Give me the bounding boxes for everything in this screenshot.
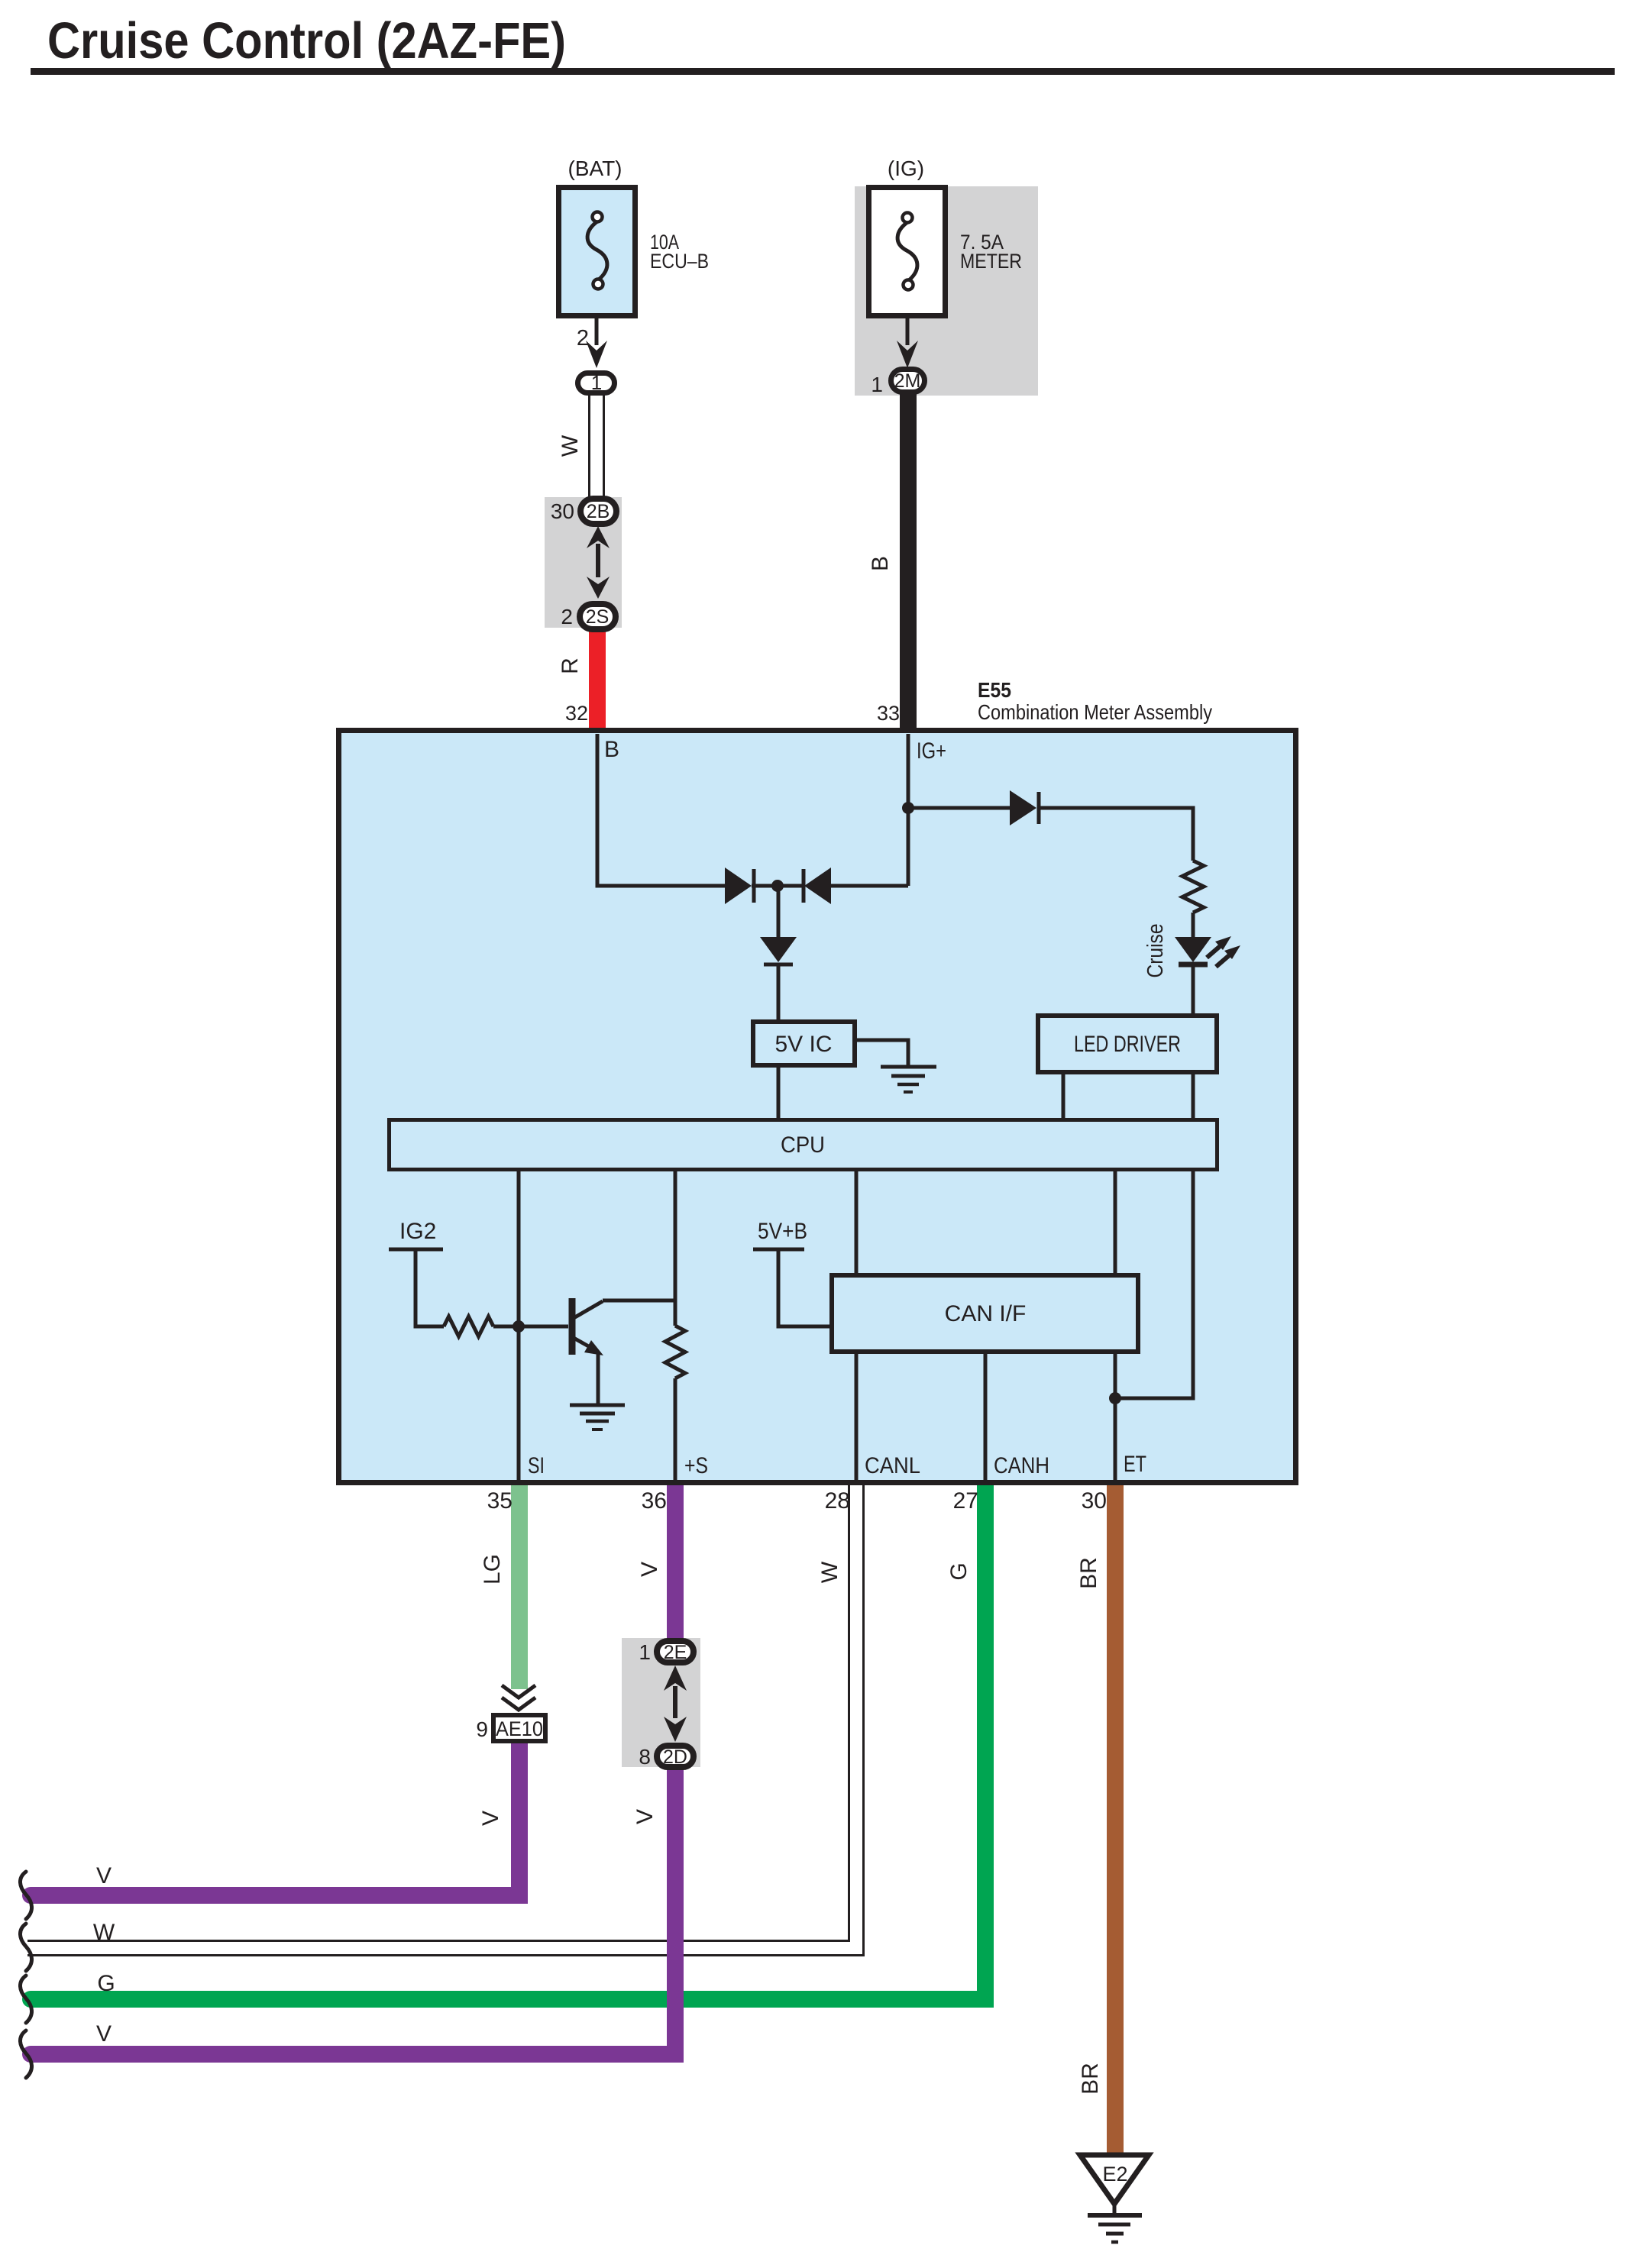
svg-text:28: 28 xyxy=(825,1488,850,1514)
svg-text:G: G xyxy=(97,1971,115,1996)
svg-text:9: 9 xyxy=(476,1717,488,1741)
LED Cruise xyxy=(1175,937,1211,962)
svg-text:(BAT): (BAT) xyxy=(568,157,622,180)
diode D1 xyxy=(725,867,752,904)
arrow into connector 2M xyxy=(897,341,918,368)
svg-text:5V IC: 5V IC xyxy=(774,1032,832,1057)
junction arrows between 2E and 2D xyxy=(664,1665,687,1691)
svg-text:+S: +S xyxy=(684,1453,708,1478)
wire CANH to pin 27 xyxy=(984,1352,988,1482)
wire 5V IC to ground xyxy=(855,1040,908,1067)
svg-text:AE10: AE10 xyxy=(496,1717,543,1740)
wire CANL to pin 28 xyxy=(855,1352,859,1482)
wire LED return to ET xyxy=(1115,1170,1193,1398)
svg-text:V: V xyxy=(637,1562,662,1577)
svg-text:SI: SI xyxy=(528,1453,545,1478)
ground E2 xyxy=(1080,2155,1149,2204)
svg-text:LED DRIVER: LED DRIVER xyxy=(1074,1032,1181,1057)
wire CPU to CAN I/F left xyxy=(855,1170,859,1275)
diode D4 xyxy=(777,886,781,937)
resistor R1 xyxy=(1182,861,1204,913)
svg-text:Combination Meter Assembly: Combination Meter Assembly xyxy=(978,700,1212,724)
break symbol wire G xyxy=(20,1976,31,2023)
break symbol wire W xyxy=(20,1924,31,1971)
connector oval 2S xyxy=(580,604,616,629)
svg-text:33: 33 xyxy=(877,702,900,725)
svg-text:METER: METER xyxy=(960,250,1022,273)
svg-text:V: V xyxy=(632,1809,658,1824)
svg-text:8: 8 xyxy=(639,1745,651,1769)
E55 Combination Meter Assembly box xyxy=(339,731,1296,1483)
wire between diodes xyxy=(752,884,804,888)
wire B black from 2M to pin 33 xyxy=(900,393,917,731)
node dot SI xyxy=(513,1320,525,1333)
wire D2 to IG+ xyxy=(831,884,908,888)
svg-text:1: 1 xyxy=(871,373,883,396)
wires LED DRIVER to CPU xyxy=(1062,1072,1065,1119)
svg-text:1: 1 xyxy=(591,371,602,394)
wire resistor to LED xyxy=(1192,913,1195,937)
wire ET to pin 30 xyxy=(1114,1352,1117,1482)
svg-text:CANH: CANH xyxy=(994,1453,1049,1478)
box 5V IC xyxy=(753,1022,855,1065)
box CAN I/F xyxy=(832,1275,1138,1352)
resistor R3 xyxy=(665,1326,685,1378)
wire R2 to node xyxy=(493,1325,568,1329)
svg-text:ET: ET xyxy=(1124,1452,1146,1477)
svg-text:30: 30 xyxy=(551,499,574,523)
chevron connector arrows into AE10 xyxy=(502,1685,535,1698)
connector oval 2M xyxy=(891,370,925,393)
wire D3 to resistor xyxy=(1039,808,1193,861)
resistor R2 xyxy=(444,1317,493,1336)
wire LG from pin 35 xyxy=(511,1482,528,1689)
svg-text:30: 30 xyxy=(1082,1488,1107,1514)
connector block shading 2B/2S xyxy=(545,497,622,628)
connector block shading 2E/2D xyxy=(622,1638,700,1767)
svg-text:2: 2 xyxy=(577,326,589,351)
svg-text:(IG): (IG) xyxy=(888,157,924,180)
svg-text:BR: BR xyxy=(1078,2063,1103,2095)
node dot ET xyxy=(1109,1392,1121,1404)
node dot diode junction xyxy=(771,880,784,892)
arrow into connector 1 xyxy=(586,341,607,368)
wire R3 to pin 36 xyxy=(674,1378,677,1482)
connector oval 2D xyxy=(657,1746,694,1767)
svg-text:CAN I/F: CAN I/F xyxy=(945,1301,1027,1326)
wire node to resistor R3 xyxy=(674,1300,677,1326)
wire W white from pin 28 CANL to lower-left xyxy=(27,1485,856,1948)
diode D2 xyxy=(802,869,806,903)
transistor Q1 xyxy=(569,1298,576,1355)
wire 5V IC to CPU xyxy=(777,1065,781,1119)
connector AE10 xyxy=(493,1715,545,1741)
wire IG+ to diode D3 xyxy=(908,806,1010,810)
svg-text:V: V xyxy=(478,1811,503,1826)
wire CPU to CAN I/F right xyxy=(1114,1170,1117,1275)
svg-text:36: 36 xyxy=(642,1488,667,1514)
diode D3 xyxy=(1010,790,1036,825)
fuse output stub pin 1 xyxy=(906,316,910,345)
svg-text:V: V xyxy=(96,1863,112,1888)
svg-text:LG: LG xyxy=(480,1554,505,1585)
connector oval 2B xyxy=(580,499,616,524)
svg-text:IG2: IG2 xyxy=(399,1219,436,1244)
svg-text:Cruise Control (2AZ-FE): Cruise Control (2AZ-FE) xyxy=(47,12,566,69)
wire W white from connector 1 to 2B xyxy=(588,393,605,498)
break symbol wire V1 xyxy=(20,1872,31,1919)
svg-text:B: B xyxy=(604,737,619,762)
svg-text:2M: 2M xyxy=(894,370,921,392)
svg-text:IG+: IG+ xyxy=(917,738,946,764)
svg-text:2: 2 xyxy=(561,605,573,628)
connector block shading (IG) / 2M xyxy=(855,186,1038,396)
wire V violet from 2D to lower-left xyxy=(31,1769,675,2054)
box CPU xyxy=(390,1120,1217,1170)
svg-text:E2: E2 xyxy=(1102,2163,1127,2186)
wire node B internal xyxy=(597,734,725,886)
junction arrows between 2B and 2S xyxy=(587,526,610,548)
fuse ECU-B element xyxy=(587,221,607,279)
fuse METER element xyxy=(897,222,917,280)
svg-text:2E: 2E xyxy=(664,1642,687,1663)
node dot IG+ branch xyxy=(902,802,914,814)
svg-text:W: W xyxy=(93,1920,115,1945)
wire emitter to ground xyxy=(597,1352,600,1405)
box LED DRIVER xyxy=(1038,1016,1217,1072)
wire R red from 2S to pin 32 xyxy=(589,628,606,731)
svg-text:ECU–B: ECU–B xyxy=(650,250,709,273)
wire V violet from AE10 to lower-left xyxy=(31,1743,519,1895)
svg-text:G: G xyxy=(946,1562,972,1580)
wire collector node from CPU xyxy=(603,1170,675,1300)
svg-text:2S: 2S xyxy=(586,606,610,628)
svg-text:R: R xyxy=(558,657,583,674)
svg-text:E55: E55 xyxy=(978,678,1011,702)
svg-text:5V+B: 5V+B xyxy=(758,1219,807,1244)
fuse ECU-B (BAT) box xyxy=(559,188,635,316)
fuse output stub pin 2 xyxy=(595,316,599,345)
break symbol wire V2 xyxy=(20,2031,31,2078)
fuse METER (IG) box xyxy=(869,188,946,316)
svg-text:32: 32 xyxy=(565,702,588,725)
wire node IG+ internal xyxy=(907,734,910,886)
svg-text:BR: BR xyxy=(1076,1557,1101,1589)
svg-text:1: 1 xyxy=(639,1640,651,1664)
svg-text:B: B xyxy=(868,556,893,571)
svg-text:2B: 2B xyxy=(587,501,610,522)
wire SI from CPU to pin 35 xyxy=(517,1170,521,1482)
wire G green from pin 27 CANH to lower-left xyxy=(31,1482,985,1999)
svg-text:Cruise: Cruise xyxy=(1143,924,1168,978)
svg-text:CPU: CPU xyxy=(781,1132,825,1158)
svg-text:V: V xyxy=(96,2021,112,2047)
svg-text:27: 27 xyxy=(953,1488,978,1514)
wire LED to LED DRIVER xyxy=(1192,964,1195,1016)
title underline xyxy=(31,68,1615,75)
wire V violet from pin 36 +S to 2E xyxy=(667,1482,684,1640)
svg-text:CANL: CANL xyxy=(865,1453,920,1478)
ground symbol (emitter) xyxy=(570,1404,625,1407)
wire BR brown from pin 30 ET to ground E2 xyxy=(1107,1482,1124,2155)
ground symbol (5V IC) xyxy=(881,1065,936,1069)
connector oval 2E xyxy=(657,1641,694,1662)
svg-text:W: W xyxy=(817,1561,842,1583)
connector oval 1 xyxy=(578,373,615,393)
wire D4 to 5V IC xyxy=(777,964,781,1022)
svg-text:35: 35 xyxy=(487,1488,513,1514)
svg-text:W: W xyxy=(558,435,583,457)
svg-text:2D: 2D xyxy=(663,1746,687,1768)
